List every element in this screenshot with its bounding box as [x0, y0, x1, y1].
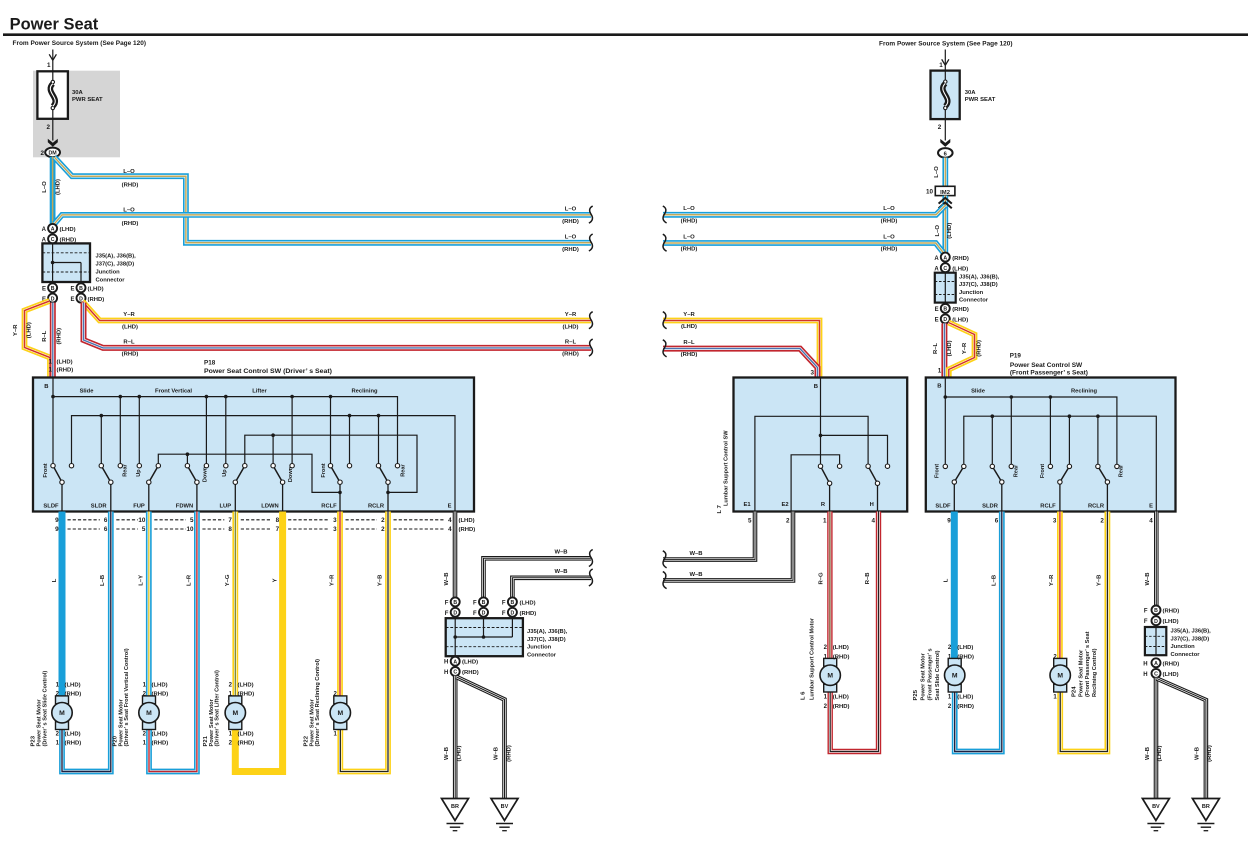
svg-text:Front: Front — [321, 463, 327, 477]
svg-text:A: A — [934, 267, 939, 273]
svg-text:9: 9 — [55, 517, 59, 524]
wire L-O trunk (connector 6 to IM2) — [942, 158, 948, 187]
switch L7 Lumbar Support Control SW - box — [734, 378, 908, 512]
svg-text:Y–R: Y–R — [330, 574, 336, 586]
svg-text:(RHD): (RHD) — [122, 221, 139, 227]
svg-text:(RHD): (RHD) — [57, 367, 74, 373]
switch P19 Power Seat Control SW Front Passenger's Seat - box — [926, 378, 1176, 512]
svg-text:(LHD): (LHD) — [457, 745, 463, 761]
svg-text:Slide: Slide — [80, 388, 95, 394]
svg-text:(RHD): (RHD) — [462, 670, 479, 676]
svg-text:RCLF: RCLF — [321, 504, 337, 510]
svg-text:10: 10 — [186, 526, 194, 533]
svg-text:PWR SEAT: PWR SEAT — [965, 97, 996, 103]
fuse 30A PWR SEAT (right) — [931, 71, 960, 120]
svg-text:(LHD): (LHD) — [1163, 619, 1179, 625]
svg-text:Y: Y — [272, 578, 278, 582]
svg-text:W–B: W–B — [689, 572, 702, 578]
svg-text:(RHD): (RHD) — [65, 741, 82, 747]
svg-text:L: L — [944, 578, 950, 582]
wire R-L RHD vertical (to P18 pin 1) — [50, 303, 56, 378]
wire W-B to ground BR (right) — [1157, 679, 1206, 799]
gray highlight box — [33, 71, 120, 158]
svg-text:B: B — [943, 307, 947, 313]
svg-text:(Driver’ s Seat Front Vertical: (Driver’ s Seat Front Vertical Control) — [124, 648, 130, 746]
svg-text:2: 2 — [40, 150, 44, 157]
cut symbol L-O lower (left half) — [589, 234, 593, 251]
svg-text:L–O: L–O — [123, 169, 135, 175]
svg-text:Connector: Connector — [96, 278, 126, 284]
svg-text:9: 9 — [55, 526, 59, 533]
svg-text:J35(A), J36(B),: J35(A), J36(B), — [527, 629, 568, 635]
svg-text:L–O: L–O — [883, 234, 895, 240]
svg-text:W–B: W–B — [1145, 747, 1151, 760]
svg-text:3: 3 — [333, 526, 337, 533]
svg-text:(RHD): (RHD) — [957, 704, 974, 710]
svg-text:(LHD): (LHD) — [957, 694, 973, 700]
svg-text:(RHD): (RHD) — [152, 741, 169, 747]
svg-text:B: B — [453, 600, 457, 606]
svg-text:(RHD): (RHD) — [1163, 609, 1180, 615]
title rule — [3, 33, 1248, 36]
svg-text:P25: P25 — [913, 689, 919, 700]
svg-text:E2: E2 — [781, 502, 788, 508]
svg-text:Front Vertical: Front Vertical — [155, 388, 192, 394]
svg-text:(RHD): (RHD) — [681, 247, 698, 253]
wire W-B to ground BR (left) — [453, 676, 458, 799]
svg-text:LUP: LUP — [219, 504, 231, 510]
svg-text:(LHD): (LHD) — [947, 223, 953, 239]
svg-text:(RHD): (RHD) — [88, 297, 105, 303]
L7 switch H — [877, 483, 879, 511]
svg-text:W–B: W–B — [494, 747, 500, 760]
svg-text:L–R: L–R — [187, 574, 193, 586]
svg-text:Y–R: Y–R — [13, 324, 19, 336]
svg-text:Connector: Connector — [959, 298, 989, 304]
svg-text:J37(C), J38(D): J37(C), J38(D) — [527, 637, 566, 643]
wire L-O LHD trunk (DM to junction A) — [50, 157, 56, 224]
svg-text:(Driver’ s Seat Slide Control): (Driver’ s Seat Slide Control) — [43, 671, 49, 747]
svg-text:2: 2 — [1100, 518, 1104, 525]
wire Y-R (P19 RCLF to motor P24) — [1057, 512, 1063, 659]
svg-text:Connector: Connector — [1171, 652, 1201, 658]
P18 bus E — [72, 416, 456, 512]
svg-text:4: 4 — [1149, 518, 1153, 525]
svg-text:E: E — [70, 287, 74, 293]
svg-text:Slide: Slide — [971, 388, 986, 394]
svg-text:W–B: W–B — [689, 551, 702, 557]
svg-text:BR: BR — [1202, 804, 1210, 810]
svg-text:L–Y: L–Y — [139, 575, 145, 586]
wire L (SLDF to motor P23) — [59, 512, 66, 697]
svg-text:M: M — [827, 673, 833, 680]
svg-text:Power Seat Control SW: Power Seat Control SW — [1010, 362, 1083, 369]
P19 bus B (top) — [944, 378, 946, 464]
svg-text:W–B: W–B — [444, 747, 450, 760]
svg-text:FDWN: FDWN — [176, 504, 193, 510]
svg-text:3: 3 — [333, 517, 337, 524]
svg-text:(RHD): (RHD) — [562, 219, 579, 225]
svg-text:P18: P18 — [204, 359, 216, 366]
wire Y (LDWN to motor P21) — [235, 512, 282, 772]
svg-text:Front: Front — [1040, 464, 1046, 478]
cut symbol L-O upper (left half) — [589, 206, 593, 223]
svg-text:(RHD): (RHD) — [1207, 745, 1213, 762]
L7 switch R — [829, 483, 831, 511]
svg-text:(LHD): (LHD) — [152, 732, 168, 738]
connector pins H(A)/H(C) (left) — [451, 657, 460, 666]
svg-text:F: F — [473, 600, 477, 606]
svg-text:(LHD): (LHD) — [562, 324, 578, 330]
svg-text:M: M — [337, 710, 343, 717]
relay block IM2 — [935, 186, 955, 195]
svg-text:(RHD): (RHD) — [65, 692, 82, 698]
svg-text:1: 1 — [48, 366, 52, 373]
svg-text:From Power Source System (See: From Power Source System (See Page 120) — [13, 40, 147, 47]
svg-text:D: D — [511, 611, 515, 617]
svg-text:R–L: R–L — [933, 342, 939, 354]
svg-text:(LHD): (LHD) — [681, 324, 697, 330]
svg-text:P19: P19 — [1010, 352, 1022, 359]
svg-text:1: 1 — [48, 359, 52, 366]
wire L-R (FDWN to motor P20) — [149, 512, 197, 772]
connector 6 — [938, 148, 953, 158]
wire R-G (L7 R to motor L6) — [827, 512, 832, 659]
svg-text:Reclining: Reclining — [351, 388, 378, 394]
svg-text:LDWN: LDWN — [261, 504, 278, 510]
switch P18 Power Seat Control SW Driver's Seat - box — [33, 378, 474, 512]
svg-text:M: M — [952, 673, 958, 680]
svg-text:FUP: FUP — [133, 504, 145, 510]
svg-text:6: 6 — [104, 517, 108, 524]
svg-text:(RHD): (RHD) — [681, 352, 698, 358]
svg-text:D: D — [51, 296, 55, 302]
svg-text:2: 2 — [786, 518, 790, 525]
svg-text:L–O: L–O — [683, 206, 695, 212]
wire W-B from P18 E pin — [453, 512, 458, 598]
svg-text:4: 4 — [448, 526, 452, 533]
svg-text:D: D — [1154, 619, 1158, 625]
wire from power source into fuse (left) — [52, 50, 54, 72]
arrow into connector 6 — [940, 139, 950, 147]
svg-text:(RHD): (RHD) — [952, 307, 969, 313]
svg-text:A: A — [943, 255, 947, 261]
P19 contacts — [943, 464, 947, 468]
wire L-O RHD (junction A to cut) — [54, 215, 591, 224]
svg-text:(Front Passenger’ s Seat: (Front Passenger’ s Seat — [1085, 631, 1091, 697]
svg-text:L–O: L–O — [42, 181, 48, 193]
svg-text:D: D — [943, 317, 947, 323]
svg-text:(LHD): (LHD) — [520, 600, 536, 606]
svg-text:Y–R: Y–R — [683, 312, 695, 318]
motor P24 Power Seat Motor Front Passenger's Seat Reclining Control — [1054, 658, 1067, 666]
svg-text:(RHD): (RHD) — [957, 654, 974, 660]
svg-text:P24: P24 — [1072, 686, 1078, 697]
svg-text:W–B: W–B — [1145, 572, 1151, 585]
svg-text:5: 5 — [748, 518, 752, 525]
motor P22 Power Seat Motor Driver's Seat Reclining Control — [334, 696, 347, 704]
svg-text:(Driver’ s Seat Lifter Control: (Driver’ s Seat Lifter Control) — [214, 670, 220, 746]
junction connector J35-J38 (bottom left) — [446, 618, 523, 656]
svg-text:L–B: L–B — [100, 575, 106, 586]
svg-text:(LHD): (LHD) — [57, 360, 73, 366]
svg-text:(RHD): (RHD) — [562, 352, 579, 358]
svg-text:(Front Passenger’ s: (Front Passenger’ s — [928, 648, 934, 700]
svg-text:Y–G: Y–G — [225, 574, 231, 586]
svg-text:Down: Down — [202, 466, 208, 482]
svg-text:L–O: L–O — [123, 208, 135, 214]
svg-text:Rear: Rear — [400, 463, 406, 476]
svg-text:SLDF: SLDF — [935, 504, 951, 510]
L7 internal buses — [820, 378, 822, 464]
svg-text:5: 5 — [190, 517, 194, 524]
svg-text:(LHD): (LHD) — [152, 683, 168, 689]
svg-text:Lumbar Support Control SW: Lumbar Support Control SW — [724, 430, 730, 506]
svg-text:R–B: R–B — [865, 573, 871, 585]
svg-text:10: 10 — [138, 517, 146, 524]
svg-text:RCLR: RCLR — [1088, 504, 1105, 510]
arrow into connector DM — [48, 139, 58, 147]
svg-text:E: E — [70, 297, 74, 303]
ground BV (left) — [491, 799, 518, 821]
svg-text:R–L: R–L — [683, 340, 695, 346]
svg-text:(RHD): (RHD) — [520, 611, 537, 617]
wire L-O RHD cut 2 (right half) — [663, 243, 943, 253]
junction connector J35-J38 (top left) — [42, 243, 90, 282]
svg-text:(LHD): (LHD) — [1163, 672, 1179, 678]
connector pins F(B)/F(D) (left) — [451, 597, 460, 606]
svg-text:B: B — [937, 384, 941, 390]
svg-text:E: E — [935, 307, 939, 313]
svg-text:C: C — [943, 266, 947, 272]
svg-text:8: 8 — [228, 526, 232, 533]
svg-text:M: M — [59, 710, 65, 717]
svg-text:Junction: Junction — [96, 270, 121, 276]
wire Y-R LHD (to cut, right of junction) — [83, 302, 592, 321]
wire W-B E2 to cut (right half) — [663, 512, 793, 581]
svg-text:3: 3 — [810, 370, 814, 377]
svg-text:D: D — [79, 296, 83, 302]
svg-text:(LHD): (LHD) — [238, 683, 254, 689]
svg-text:Up: Up — [136, 469, 142, 477]
svg-text:9: 9 — [947, 518, 951, 525]
svg-text:R–L: R–L — [42, 330, 48, 342]
svg-text:A: A — [934, 256, 939, 262]
svg-text:L–O: L–O — [934, 166, 940, 178]
P19 switches — [953, 482, 955, 512]
svg-text:B: B — [79, 286, 83, 292]
svg-text:(RHD): (RHD) — [1163, 661, 1180, 667]
connector pin A(C) LHD (right) — [941, 263, 950, 272]
svg-text:L–O: L–O — [565, 234, 577, 240]
svg-text:(RHD): (RHD) — [952, 256, 969, 262]
svg-text:RCLF: RCLF — [1040, 504, 1056, 510]
svg-text:H: H — [1143, 672, 1147, 678]
svg-text:Rear: Rear — [1014, 464, 1020, 477]
svg-text:BV: BV — [501, 804, 509, 810]
svg-text:L–O: L–O — [883, 206, 895, 212]
svg-text:L–O: L–O — [565, 206, 577, 212]
svg-text:F: F — [502, 600, 506, 606]
svg-text:(LHD): (LHD) — [122, 324, 138, 330]
svg-text:RCLR: RCLR — [368, 504, 385, 510]
connector pins H(A)/H(C) (right) — [1152, 658, 1161, 667]
svg-text:R–L: R–L — [123, 339, 135, 345]
P19 bus E — [964, 416, 1157, 511]
svg-text:L–B: L–B — [991, 575, 997, 586]
svg-text:B: B — [44, 384, 48, 390]
svg-text:Reclining Control): Reclining Control) — [1092, 648, 1098, 697]
svg-text:F: F — [445, 600, 449, 606]
wire Y-R RHD detour (to P19 pin 1) — [949, 323, 975, 378]
svg-text:M: M — [146, 710, 152, 717]
connector pin A(A) RHD (right) — [941, 253, 950, 262]
svg-text:(LHD): (LHD) — [833, 694, 849, 700]
svg-text:Y–B: Y–B — [1097, 575, 1103, 586]
wire W-B cut 1 (left half) — [484, 558, 592, 597]
wire L (P19 SLDF to motor P25) — [951, 512, 958, 659]
wire L-O RHD cut 1 (right half) — [663, 206, 945, 215]
svg-text:BR: BR — [451, 804, 459, 810]
wire L-O LHD trunk (IM2 to junction A right) — [942, 196, 948, 253]
svg-text:(LHD): (LHD) — [957, 645, 973, 651]
wire Y-B (P19 RCLR to motor P24) — [1060, 512, 1107, 752]
svg-text:3: 3 — [1053, 518, 1057, 525]
svg-text:(LHD): (LHD) — [88, 287, 104, 293]
svg-text:Rear: Rear — [1119, 464, 1125, 477]
svg-text:Lumbar Support Control Motor: Lumbar Support Control Motor — [810, 617, 816, 700]
P18 bus to RCLR common — [245, 435, 417, 492]
P18 bus B (top) — [52, 378, 54, 464]
svg-text:BV: BV — [1152, 804, 1160, 810]
svg-text:L 7: L 7 — [717, 504, 723, 513]
svg-text:(RHD): (RHD) — [57, 328, 63, 345]
svg-text:30A: 30A — [72, 90, 84, 96]
svg-text:(LHD): (LHD) — [55, 179, 61, 195]
svg-text:Y–R: Y–R — [565, 312, 577, 318]
wire W-B E1 to cut (right half) — [663, 512, 755, 560]
svg-text:1: 1 — [938, 368, 942, 375]
svg-text:1: 1 — [47, 62, 51, 69]
svg-text:(Front Passenger’ s Seat): (Front Passenger’ s Seat) — [1010, 369, 1088, 376]
wire W-B cut 2 (left half) — [512, 578, 591, 598]
svg-text:R–L: R–L — [565, 339, 577, 345]
connector pin A(A) LHD — [48, 224, 57, 233]
svg-text:E: E — [935, 318, 939, 324]
svg-text:C: C — [51, 237, 55, 243]
svg-text:A: A — [42, 227, 47, 233]
svg-text:Down: Down — [288, 466, 294, 482]
svg-text:(RHD): (RHD) — [833, 654, 850, 660]
svg-text:Reclining: Reclining — [1071, 388, 1098, 394]
svg-text:(RHD): (RHD) — [881, 247, 898, 253]
motor P20 Power Seat Motor Driver's Seat Front Vertical Control — [143, 696, 156, 704]
svg-text:Y–B: Y–B — [378, 575, 384, 586]
fuse 30A PWR SEAT (left) — [37, 71, 68, 119]
svg-text:Junction: Junction — [1171, 644, 1196, 650]
svg-text:(RHD): (RHD) — [122, 183, 139, 189]
ground BR (right) — [1192, 799, 1219, 821]
connector DM — [45, 148, 60, 158]
svg-text:F: F — [1144, 619, 1148, 625]
svg-text:(LHD): (LHD) — [65, 683, 81, 689]
svg-text:(RHD): (RHD) — [977, 340, 983, 357]
svg-text:2: 2 — [938, 124, 942, 131]
wire R-L LHD vertical (to P19 pin 1) — [941, 323, 947, 377]
motor P21 Power Seat Motor Driver's Seat Lifter Control — [229, 696, 242, 704]
svg-text:6: 6 — [104, 526, 108, 533]
svg-text:D: D — [453, 611, 457, 617]
svg-text:W–B: W–B — [554, 550, 567, 556]
svg-text:1: 1 — [823, 518, 827, 525]
svg-text:A: A — [1154, 661, 1158, 667]
svg-text:C: C — [453, 670, 457, 676]
svg-text:Front: Front — [935, 464, 941, 478]
svg-text:Power Seat Motor: Power Seat Motor — [1078, 649, 1084, 697]
svg-text:SLDR: SLDR — [982, 504, 999, 510]
wire W-B (P19 E down) — [1154, 512, 1159, 606]
svg-text:W–B: W–B — [444, 572, 450, 585]
svg-text:(RHD): (RHD) — [152, 692, 169, 698]
chevron (wire crossing marker) — [939, 198, 952, 204]
wire L-B (SLDR to motor P23) — [62, 512, 111, 772]
svg-text:B: B — [1154, 608, 1158, 614]
svg-text:(LHD): (LHD) — [238, 732, 254, 738]
connector pins E(D) row (left) — [48, 294, 57, 303]
svg-text:Lifter: Lifter — [252, 388, 267, 394]
wire Y-R LHD detour (to P18 pin 1) — [25, 301, 51, 378]
svg-text:F: F — [445, 611, 449, 617]
svg-text:A: A — [453, 659, 457, 665]
svg-text:7: 7 — [276, 526, 280, 533]
svg-text:F: F — [502, 611, 506, 617]
svg-text:From Power Source System (See: From Power Source System (See Page 120) — [879, 41, 1013, 48]
svg-text:(RHD): (RHD) — [562, 247, 579, 253]
svg-text:SLDR: SLDR — [91, 504, 108, 510]
wire W-B to ground BV (left) — [457, 677, 505, 799]
svg-text:DM: DM — [48, 151, 57, 157]
svg-text:(LHD): (LHD) — [26, 322, 32, 338]
svg-text:2: 2 — [381, 517, 385, 524]
svg-text:(LHD): (LHD) — [459, 518, 475, 524]
svg-text:Junction: Junction — [527, 645, 552, 651]
connector pins F(B)/F(D) (right) — [1152, 606, 1161, 615]
connector pins E(B) row (left) — [48, 283, 57, 292]
svg-text:J35(A), J36(B),: J35(A), J36(B), — [1171, 629, 1212, 635]
P18 contact circles — [51, 464, 55, 468]
connector pin E(B) RHD (right) — [941, 304, 950, 313]
svg-text:Rear: Rear — [123, 463, 129, 476]
svg-text:R–G: R–G — [819, 572, 825, 585]
svg-text:J35(A), J36(B),: J35(A), J36(B), — [96, 253, 137, 259]
svg-text:4: 4 — [871, 518, 875, 525]
svg-text:1: 1 — [939, 62, 943, 69]
svg-text:J35(A), J36(B),: J35(A), J36(B), — [959, 274, 1000, 280]
svg-text:(LHD): (LHD) — [462, 660, 478, 666]
connector pin E(D) LHD (right) — [941, 314, 950, 323]
wire W-B to ground BV (right) — [1154, 678, 1159, 799]
svg-text:(RHD): (RHD) — [238, 741, 255, 747]
wire Y-B (RCLR to motor P22) — [340, 512, 388, 772]
svg-text:H: H — [444, 660, 448, 666]
svg-text:30A: 30A — [965, 90, 977, 96]
svg-text:C: C — [1154, 672, 1158, 678]
svg-text:Seat Slide Control): Seat Slide Control) — [935, 650, 941, 700]
svg-text:L 6: L 6 — [801, 691, 807, 700]
svg-text:(LHD): (LHD) — [952, 267, 968, 273]
svg-text:B: B — [814, 384, 818, 390]
svg-text:J37(C), J38(D): J37(C), J38(D) — [1171, 636, 1210, 642]
